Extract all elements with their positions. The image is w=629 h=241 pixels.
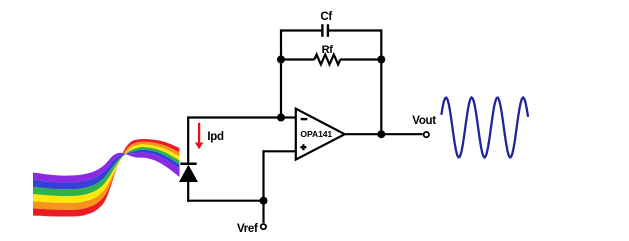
op-amp U1 OPA141 triangle	[296, 109, 345, 160]
wire non-inverting vertical	[262, 150, 264, 201]
svg-text:OPA141: OPA141	[300, 129, 332, 139]
wire right feedback vertical	[380, 29, 382, 134]
rainbow red stripe	[33, 139, 180, 217]
wire bottom (anode to Vref node)	[187, 200, 263, 202]
junction node: feedback right at Rf	[377, 56, 385, 64]
rainbow orange stripe	[33, 142, 180, 210]
svg-text:Ipd: Ipd	[207, 131, 224, 143]
wire photodiode cathode branch	[187, 118, 189, 165]
junction node: Vref net	[260, 197, 268, 205]
svg-text:Vout: Vout	[412, 115, 436, 127]
junction node: feedback left at Rf	[277, 56, 285, 64]
sine wave output signal	[442, 98, 528, 158]
wire Vref stub	[262, 201, 264, 223]
resistor Rf	[314, 55, 340, 65]
wire top feedback (Cf branch) right segment	[329, 29, 381, 31]
wire inverting input	[187, 116, 296, 118]
wire photodiode anode branch	[187, 182, 189, 202]
rainbow yellow stripe	[33, 144, 180, 203]
capacitor Cf left plate	[321, 24, 323, 37]
terminal Vout	[424, 132, 429, 137]
wire Rf branch left segment	[281, 58, 314, 60]
capacitor Cf right plate	[327, 24, 329, 37]
rainbow green stripe	[33, 147, 180, 196]
rainbow purple stripe	[33, 152, 180, 182]
svg-text:Cf: Cf	[320, 11, 332, 23]
wire op-amp output	[345, 133, 423, 135]
photodiode D1 cathode bar	[180, 163, 196, 166]
wire left feedback vertical	[280, 29, 282, 117]
svg-text:Vref: Vref	[237, 223, 258, 235]
op-amp non-inverting input plus symbol	[300, 144, 306, 150]
op-amp inverting input minus symbol	[301, 118, 308, 120]
terminal Vref	[261, 224, 266, 229]
photodiode D1 triangle	[179, 165, 198, 182]
junction node: output feedback	[377, 130, 385, 138]
junction node: inverting input	[277, 114, 285, 122]
rainbow blue stripe	[33, 150, 180, 190]
wire top feedback (Cf branch) left segment	[281, 29, 321, 31]
svg-text:Rf: Rf	[322, 44, 334, 56]
wire Rf branch right segment	[340, 58, 381, 60]
current arrow Ipd	[198, 123, 200, 144]
wire non-inverting input horizontal	[264, 150, 296, 152]
